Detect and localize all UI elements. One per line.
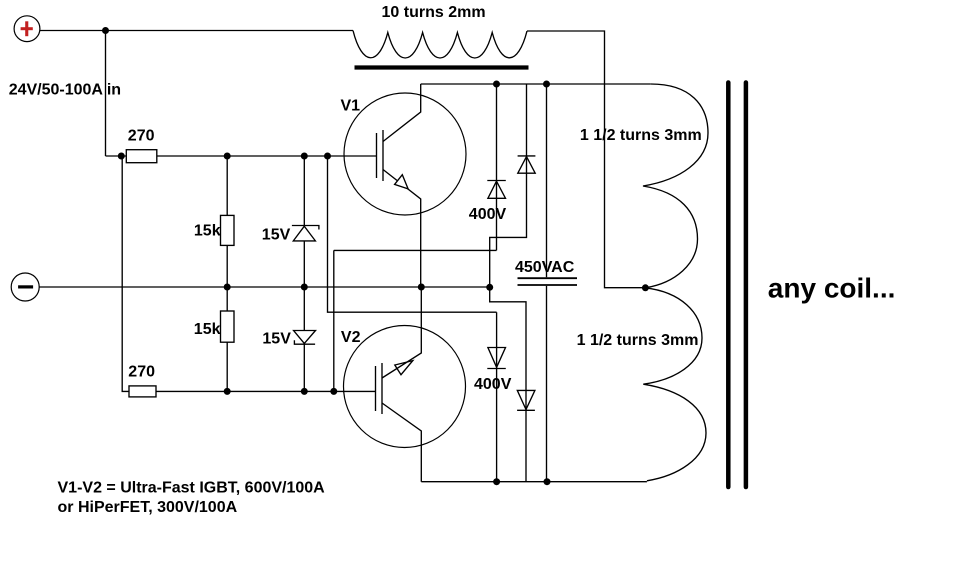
svg-text:V1-V2 = Ultra-Fast IGBT, 600V/: V1-V2 = Ultra-Fast IGBT, 600V/100A xyxy=(58,480,326,497)
svg-text:15k: 15k xyxy=(194,321,221,338)
svg-text:V1: V1 xyxy=(341,98,361,115)
svg-text:1 1/2 turns 3mm: 1 1/2 turns 3mm xyxy=(580,127,702,144)
svg-text:any coil...: any coil... xyxy=(768,272,896,303)
svg-text:400V: 400V xyxy=(474,376,512,393)
svg-text:10 turns 2mm: 10 turns 2mm xyxy=(382,4,486,21)
svg-text:24V/50-100A in: 24V/50-100A in xyxy=(9,82,121,99)
svg-text:1 1/2 turns 3mm: 1 1/2 turns 3mm xyxy=(577,332,699,349)
svg-text:400V: 400V xyxy=(469,206,507,223)
svg-text:270: 270 xyxy=(128,364,155,381)
svg-text:450VAC: 450VAC xyxy=(515,259,575,276)
svg-text:270: 270 xyxy=(128,128,155,145)
svg-text:V2: V2 xyxy=(341,329,361,346)
svg-text:or HiPerFET, 300V/100A: or HiPerFET, 300V/100A xyxy=(58,499,238,516)
svg-text:15V: 15V xyxy=(262,331,291,348)
svg-text:15k: 15k xyxy=(194,222,221,239)
svg-text:15V: 15V xyxy=(262,227,291,244)
